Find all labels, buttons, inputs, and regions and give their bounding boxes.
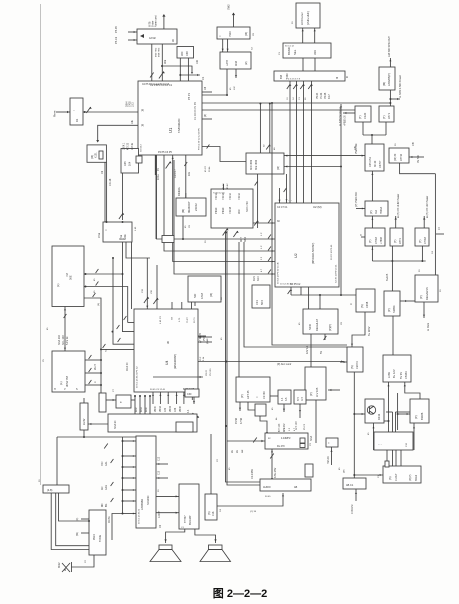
wire Q5 down long: [226, 69, 228, 95]
ic box U12 memory: [176, 198, 206, 216]
svg-text:- - -: - - -: [378, 443, 382, 446]
ic box U14 sif: [246, 153, 284, 174]
svg-text:1 45 C3: 1 45 C3: [160, 316, 162, 324]
svg-text:图 2—2—2: 图 2—2—2: [213, 587, 267, 600]
ic box PS7 B+ sw: [383, 355, 411, 382]
wire Q19 bottom stub: [355, 489, 357, 501]
capacitor C40: [64, 314, 67, 318]
wire U11 pin a: [85, 359, 101, 361]
arrow right at U1 top: [197, 74, 199, 76]
wire U24 pin b: [81, 532, 89, 534]
wire main bus left: [226, 231, 261, 482]
trimmer VR6: [189, 413, 193, 419]
capacitor C36: [124, 316, 127, 320]
svg-text:Norm cond: Norm cond: [155, 15, 158, 27]
wire Q12 out long: [353, 372, 355, 478]
svg-text:5V 9V: 5V 9V: [399, 372, 403, 379]
ic U2 system control M50436: [275, 203, 339, 287]
junction main bus: [225, 425, 227, 427]
transistor Q20 9012: [62, 563, 70, 572]
wire U4 bottom pin 2: [159, 392, 161, 404]
wire U10 stub: [155, 155, 157, 239]
svg-text:30 C4 12 P5 02 C1 45: 30 C4 12 P5 02 C1 45: [278, 262, 280, 284]
svg-text:C8 22: C8 22: [206, 369, 208, 376]
wire U14 top feed a: [259, 104, 261, 154]
wire bus branch to delay: [227, 440, 265, 442]
svg-text:(M50436-560SP): (M50436-560SP): [311, 243, 315, 264]
capacitor C11 on bus: [293, 84, 297, 89]
wire join to PS1: [371, 135, 373, 151]
svg-text:MUX IN: MUX IN: [126, 362, 129, 371]
wire U1 pin to bus B: [164, 155, 275, 251]
svg-text:U4: U4: [165, 361, 169, 365]
wire U4 right stub: [198, 335, 206, 337]
svg-text:SDA 102: SDA 102: [58, 335, 61, 345]
svg-text:3DW 7M: 3DW 7M: [65, 375, 69, 387]
wire U1 second long bus: [202, 109, 355, 111]
svg-text:P5 C3: P5 C3: [304, 423, 306, 430]
wire U2 pin to SCR2: [308, 287, 310, 309]
wire left sub bus b: [113, 258, 134, 344]
wire U25 out pin b: [156, 477, 168, 479]
regulator box PS2: [389, 148, 409, 163]
svg-text:30 45: 30 45: [265, 496, 271, 498]
wire U2 bottom pin a: [290, 287, 292, 295]
svg-text:30E 45M: 30E 45M: [255, 160, 258, 170]
svg-text:30 C1 12: 30 C1 12: [285, 46, 295, 48]
wire SML feed: [210, 434, 212, 494]
svg-text:DK/: DK/: [102, 503, 104, 507]
wire U4 bottom pin 4: [176, 392, 178, 404]
wire U9 down: [64, 307, 66, 352]
svg-text:AB C1: AB C1: [346, 484, 354, 487]
wire mute branch: [112, 514, 123, 541]
svg-text:(P): (P): [419, 295, 423, 299]
svg-text:(P): (P): [309, 392, 313, 396]
svg-text:U1: U1: [168, 127, 173, 133]
arrow up from U7: [232, 13, 235, 16]
svg-text:VR3A: VR3A: [159, 406, 162, 412]
wire U9 pin2 right: [84, 287, 128, 323]
wire U2 bottom pin b: [300, 287, 302, 295]
svg-text:B-Y 103: B-Y 103: [279, 423, 281, 432]
wire U25 pin 1: [123, 440, 137, 442]
svg-text:(M): (M): [244, 32, 248, 36]
wire into PS3: [356, 208, 365, 210]
relay box K1 DEG: [415, 275, 438, 302]
svg-text:P3.05: P3.05: [324, 92, 327, 99]
wire U13 out to U2: [253, 222, 275, 224]
svg-text:MUTE: MUTE: [108, 516, 111, 523]
svg-text:CB: CB: [353, 146, 357, 150]
svg-text:(4): (4): [204, 114, 207, 117]
svg-text:(P)43: (P)43: [204, 335, 206, 341]
svg-text:C34: C34: [175, 407, 177, 412]
audio amp box U26: [179, 484, 199, 529]
capacitor C63: [253, 438, 257, 443]
component box C81 in DL1: [300, 444, 305, 448]
svg-text:C79M: C79M: [375, 237, 378, 244]
wire U4 pin a stub: [128, 322, 134, 324]
svg-text:B-Y: B-Y: [297, 397, 300, 401]
svg-text:C10: C10: [159, 470, 161, 475]
regulator box VR11: [355, 106, 371, 122]
svg-text:PK30: PK30: [221, 207, 225, 214]
wire U4 top in a: [146, 258, 148, 309]
svg-text:to DEG: to DEG: [427, 323, 430, 331]
wire PS6 B+ out: [423, 216, 425, 228]
svg-text:100K 1: 100K 1: [124, 142, 126, 150]
svg-text:74CH: 74CH: [228, 193, 232, 200]
buffer box A3: [274, 71, 345, 81]
wire DL1 bottom: [271, 449, 273, 479]
svg-text:C 10: C 10: [119, 238, 125, 241]
switch box S1 (M/S): [137, 29, 177, 44]
svg-text:(P) PWR 30C: (P) PWR 30C: [355, 192, 358, 207]
trimmer VR9: [254, 221, 258, 226]
wire U10 down: [122, 173, 124, 220]
wire Q10 to DEG: [400, 300, 415, 302]
wire PS7 down b: [405, 382, 420, 399]
svg-text:C2073: C2073: [355, 361, 359, 369]
wire into U4 right b: [198, 341, 212, 343]
wire U23 out b: [56, 493, 89, 546]
arrow into delay line: [262, 440, 264, 442]
wire Q20 to U24: [72, 555, 95, 567]
svg-text:(M): (M): [277, 166, 280, 170]
wire U1 bottom left stub: [154, 155, 156, 175]
svg-text:12V 1A: 12V 1A: [306, 345, 309, 354]
svg-text:(L): (L): [59, 381, 63, 385]
svg-text:(M): (M): [382, 82, 386, 86]
wire tuner side long down: [340, 104, 342, 295]
capacitor C13 on bus: [308, 84, 312, 89]
wire H rail: [57, 436, 136, 438]
svg-text:33V: 33V: [313, 50, 317, 55]
wire refresh line: [153, 376, 203, 378]
wire X2 bottom: [123, 242, 135, 332]
svg-text:30 C2 12 P5 40: 30 C2 12 P5 40: [331, 244, 333, 260]
wire Z6 to U22 d: [400, 450, 402, 466]
wire S1 to U1 pin b: [161, 44, 163, 81]
svg-text:30k: 30k: [163, 59, 167, 64]
svg-text:M30 TM2: M30 TM2: [156, 47, 158, 57]
wire long left bus: [40, 4, 42, 485]
svg-text:out: out: [241, 449, 244, 453]
svg-text:C3707: C3707: [379, 160, 382, 168]
svg-text:30 4k: 30 4k: [209, 166, 211, 172]
wire U11 pin b: [85, 372, 101, 374]
component box C95: [305, 464, 313, 477]
wire U25 pin 2: [123, 455, 137, 457]
svg-text:LOW: LOW: [387, 372, 391, 378]
wire U4 long out to Q12: [198, 361, 344, 363]
svg-text:(C) 30: (C) 30: [250, 511, 257, 513]
wire PS7 branch: [397, 393, 399, 430]
wire U25 pin 4: [123, 477, 137, 479]
svg-text:=M: =M: [65, 273, 69, 277]
svg-text:W04: W04: [141, 407, 143, 412]
svg-text:(P)(P): (P)(P): [409, 474, 412, 481]
svg-text:C45: C45: [124, 161, 127, 166]
svg-text:74CH: 74CH: [237, 193, 241, 200]
arrow into X1: [96, 140, 99, 142]
wire U4 top in c: [171, 302, 173, 309]
capacitor C41: [89, 355, 92, 359]
svg-text:30: 30: [166, 340, 170, 344]
wire tuner bus 2: [296, 81, 298, 203]
svg-text:U2: U2: [294, 253, 298, 258]
svg-text:(W): (W): [76, 532, 79, 536]
ic box Q16: [116, 395, 131, 408]
wire tap 4: [149, 396, 151, 414]
wire U4 bottom pin 3: [167, 392, 169, 404]
crystal box X2 500kHz: [103, 222, 132, 242]
wire A1 in a: [302, 28, 304, 43]
svg-text:M: M: [335, 77, 339, 79]
svg-text:C4 C7 C1: C4 C7 C1: [277, 206, 288, 209]
arrow gnd: [191, 72, 193, 74]
delay line box DL1: [265, 433, 308, 449]
band decoder box A2: [283, 43, 331, 58]
svg-text:C38: C38: [186, 51, 189, 56]
wire U4 bottom pin 5: [183, 392, 185, 404]
svg-text:46.5: 46.5: [253, 276, 256, 281]
capacitor C30 bus: [268, 219, 271, 223]
wire U24 pin a: [81, 518, 89, 520]
svg-text:SDA tm: SDA tm: [114, 421, 117, 429]
wire U1 to audio long bus: [202, 102, 390, 104]
svg-text:(C): (C): [76, 517, 79, 521]
svg-text:(T): (T): [358, 115, 362, 119]
trimmer VR8: [266, 145, 270, 150]
regulator box Q10: [384, 291, 400, 316]
wire Z6 to U22 a: [386, 450, 388, 466]
capacitor C27 bus: [268, 247, 271, 251]
wire Q10 to PS7: [392, 316, 394, 355]
svg-text:45 58: 45 58: [235, 417, 238, 424]
wire U6 to U1 pin a: [179, 58, 181, 81]
svg-text:TONE: TONE: [98, 535, 102, 542]
wire PS5 B+ out: [395, 216, 397, 228]
wire U2 pin extra: [279, 188, 281, 203]
svg-text:9012: 9012: [58, 562, 61, 568]
svg-text:C458: C458: [365, 301, 369, 308]
svg-text:7910: 7910: [228, 31, 232, 37]
capacitor C44: [96, 269, 99, 273]
wire remote input: [56, 111, 70, 113]
svg-text:C1: C1: [201, 76, 205, 80]
wire Z2 out: [260, 416, 267, 433]
wire Q13 bottom: [373, 423, 375, 450]
ic box U13 matrix: [211, 189, 253, 228]
svg-text:56.5: 56.5: [260, 299, 264, 305]
regulator box PS5 7805: [390, 228, 403, 246]
wire U23 out c: [59, 493, 90, 521]
svg-text:CD-16: CD-16: [109, 178, 112, 186]
svg-text:P5.C2: P5.C2: [114, 36, 118, 44]
junction dots U18: [189, 425, 191, 427]
wire Q12 in arrow: [340, 361, 347, 363]
wire U25 pin 7: [123, 513, 137, 515]
wire bus to U4 d: [101, 348, 134, 350]
svg-text:(S): (S): [98, 303, 100, 306]
svg-text:74CM: 74CM: [228, 207, 232, 214]
svg-text:7630A: 7630A: [380, 206, 383, 214]
wire into S1 a: [128, 31, 137, 33]
ic box Q5 driver: [220, 52, 251, 69]
svg-text:C2.2/35V: C2.2/35V: [251, 469, 254, 479]
svg-text:AN5836K: AN5836K: [140, 499, 144, 510]
svg-text:SDA: SDA: [310, 436, 313, 441]
svg-text:40M: 40M: [235, 61, 238, 66]
wire Z6 to U22 b: [392, 450, 394, 466]
wire Z7 bottom: [331, 447, 333, 465]
wire tap 1: [134, 396, 136, 414]
svg-text:(2): (2): [141, 109, 144, 112]
svg-text:AB: AB: [294, 486, 298, 489]
svg-text:CAL: CAL: [105, 461, 108, 466]
capacitor C90: [111, 459, 114, 463]
svg-text:B2G3: B2G3: [415, 474, 418, 481]
svg-text:30C: 30C: [237, 209, 241, 214]
wire PS3 to PS4: [371, 216, 373, 228]
svg-text:W02: W02: [136, 407, 138, 412]
wire U1 right pin stub b: [202, 118, 212, 120]
wire gnd branch: [162, 66, 192, 73]
svg-text:REGULAT: REGULAT: [315, 319, 319, 331]
capacitor C51: [284, 188, 287, 192]
ic box U9 AV switch: [52, 246, 84, 307]
wire U1 pin2 branch: [98, 125, 138, 141]
svg-text:AV/: AV/: [101, 486, 104, 490]
filter FL1 remote receiver: [70, 98, 83, 125]
svg-text:103 4n: 103 4n: [132, 142, 134, 150]
svg-text:+PE(B) 30: +PE(B) 30: [345, 115, 347, 126]
wire U1 pin to bus C: [173, 155, 275, 262]
svg-text:(M): (M): [181, 209, 185, 213]
svg-text:C5353: C5353: [404, 371, 408, 379]
speaker LS2: [209, 545, 223, 550]
filter box Z6 delay: [374, 432, 413, 450]
svg-text:AT710: AT710: [400, 153, 403, 161]
svg-text:(T): (T): [418, 240, 422, 243]
ic box U7 interface: [217, 27, 250, 39]
svg-text:P2 P5 C3 P5: P2 P5 C3 P5: [158, 151, 172, 154]
svg-text:W06: W06: [146, 407, 148, 412]
svg-text:H: H: [54, 388, 56, 391]
svg-text:102: 102: [196, 59, 199, 64]
wire U4 top in b: [156, 265, 158, 309]
wire tap 3: [144, 396, 146, 414]
wire S1 to U1 pin a: [151, 44, 153, 81]
ic box U17 HV protect: [305, 367, 326, 400]
regulator box PS1: [365, 144, 384, 171]
wire U25 out pin a: [156, 463, 168, 465]
svg-text:(P) ALC contr: (P) ALC contr: [277, 363, 292, 366]
svg-text:P5 P1: P5 P1: [187, 92, 191, 100]
wire U16 down a: [310, 334, 312, 367]
svg-text:R-Y: R-Y: [301, 396, 304, 401]
wire U11 pin c: [85, 384, 101, 386]
svg-text:1-71: 1-71: [179, 317, 181, 322]
wire U8 down: [389, 90, 391, 106]
ic box U6 (AN5836): [177, 47, 194, 59]
wire A2 to A3 b: [314, 58, 316, 71]
wire PS2 bottom to right rail: [400, 163, 436, 174]
wire U4 top in e: [191, 302, 193, 309]
capacitor C29 bus: [268, 270, 271, 274]
capacitor C49: [207, 145, 210, 149]
wire Q17 bottom: [83, 430, 85, 437]
wire U20 down a: [239, 402, 241, 411]
capacitor C10 on bus: [287, 84, 290, 89]
trimmer VR4: [223, 229, 228, 236]
ic box Z3: [278, 390, 291, 404]
svg-text:AT71: AT71: [387, 112, 391, 119]
svg-text:33.4: 33.4: [257, 276, 260, 281]
capacitor C39: [103, 344, 106, 348]
wire VR12 down: [385, 122, 387, 135]
svg-text:700/: 700/: [102, 461, 104, 466]
capacitor C50: [255, 182, 258, 186]
wire PS1 to PS3: [371, 171, 373, 201]
wire U25 to amp b: [156, 512, 179, 514]
wire vert from U1 right bus: [272, 103, 347, 345]
wire U25 pin 3: [123, 466, 137, 468]
svg-text:(T): (T): [368, 240, 372, 243]
capacitor C12 on bus: [300, 84, 304, 89]
trimmer VR20: [144, 297, 148, 303]
wire Q5 down stub: [235, 69, 237, 78]
ic box Q11 sw: [356, 289, 375, 312]
svg-text:(P): (P): [387, 308, 391, 312]
svg-text:VR36: VR36: [180, 406, 182, 412]
arrow up from S1: [162, 14, 165, 17]
arrow into U11: [64, 348, 66, 350]
svg-text:(P): (P): [240, 394, 244, 398]
component box C76 inside: [176, 422, 193, 432]
svg-text:THT37: THT37: [184, 515, 187, 523]
svg-text:(S): (S): [350, 365, 354, 369]
audio ic U25 sound processor: [136, 436, 156, 528]
svg-text:B1186: B1186: [420, 412, 424, 420]
ic box Q19: [343, 478, 366, 489]
svg-text:C30: C30: [165, 407, 167, 412]
wire U16 down b: [324, 334, 326, 340]
svg-text:Vio H: Vio H: [94, 364, 97, 370]
wire U14 down right: [286, 174, 288, 203]
wire U17 down: [315, 400, 317, 443]
wire tap PS5: [391, 246, 393, 261]
regulator box PS4 7808: [365, 228, 385, 246]
wire U1 pin to memory: [185, 155, 187, 198]
svg-text:(P)48: (P)48: [207, 338, 209, 344]
wire Z6 to U22 c: [395, 450, 397, 466]
ic box U22 chroma out: [383, 466, 421, 483]
wire to Q14: [398, 413, 410, 415]
svg-text:to STB 5V Power: to STB 5V Power: [339, 107, 342, 126]
svg-text:C-OUT: C-OUT: [395, 473, 398, 481]
svg-text:C-OUT: C-OUT: [159, 510, 161, 518]
svg-text:5V: 5V: [320, 351, 323, 354]
capacitor C5: [150, 73, 154, 78]
capacitor C38: [118, 338, 121, 342]
trimmer VR5: [233, 231, 237, 237]
wire tap 2: [139, 396, 141, 414]
wire U14 down left: [257, 174, 259, 228]
svg-text:B+105: B+105: [386, 273, 389, 281]
